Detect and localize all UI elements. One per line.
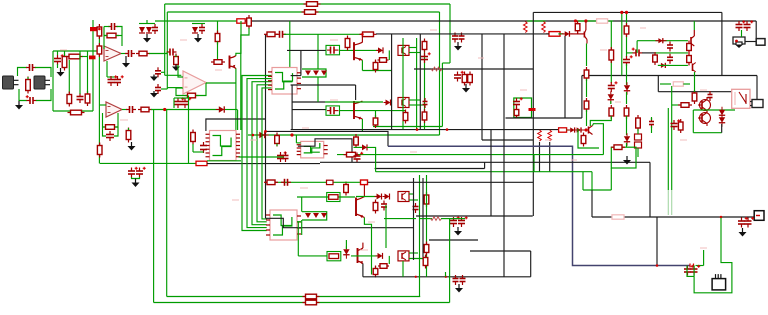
wire bus line 3: [252, 82, 272, 225]
wire: [424, 40, 426, 130]
op-amp U1A: [104, 46, 121, 61]
wire: [567, 129, 570, 131]
wire: [161, 71, 165, 73]
wire: [284, 33, 364, 35]
resistor R18: [215, 31, 220, 45]
wire: [146, 20, 148, 24]
capacitor C19b: [283, 152, 289, 162]
resistor R56: [687, 41, 692, 54]
wire: [441, 63, 443, 127]
capacitor C17: [136, 167, 146, 178]
wire: [276, 144, 278, 147]
capacitor C56: [623, 55, 633, 66]
wire black: [362, 264, 364, 277]
wire: [92, 20, 94, 111]
wire: [442, 62, 450, 64]
connector X4: [750, 100, 763, 108]
wire: [165, 74, 182, 76]
wire: [64, 51, 66, 56]
resistor R56b: [514, 107, 519, 119]
wire red collector: [362, 243, 364, 248]
optocoupler OK2: [398, 98, 409, 108]
wire: [672, 104, 680, 106]
ground: [150, 75, 158, 82]
wire: [420, 218, 432, 220]
resistor R13: [68, 110, 85, 115]
IC U5: [297, 141, 328, 158]
wire: [361, 119, 363, 131]
capacitor C33: [450, 216, 460, 227]
wire: [164, 4, 166, 75]
varistor RV1: [635, 134, 642, 140]
wire: [373, 126, 442, 128]
resistor R33: [373, 60, 378, 73]
wire: [98, 29, 100, 163]
resistor R55: [653, 52, 658, 65]
resistor R57b: [581, 133, 586, 147]
wire: [115, 113, 118, 127]
resistor R65: [673, 82, 683, 86]
optocoupler OK3 LED A: [375, 194, 382, 200]
wire: [375, 60, 377, 62]
wire base through: [340, 49, 379, 51]
wire: [297, 221, 301, 223]
wire red: [571, 33, 585, 35]
wire: [178, 65, 183, 77]
junction: [98, 28, 101, 31]
capacitor C15: [106, 131, 114, 141]
junction node A: [163, 108, 166, 111]
wire faded: [671, 190, 673, 215]
wire: [441, 218, 450, 220]
wire black: [490, 130, 492, 216]
resistor R41c: [423, 255, 428, 269]
wire: [586, 44, 588, 67]
wire: [149, 53, 167, 55]
wire: [402, 261, 404, 277]
wire rail2 bottom: [248, 134, 440, 136]
capacitor C7: [167, 49, 177, 56]
connector X1: [733, 37, 745, 48]
wire: [176, 88, 187, 96]
wire: [166, 12, 168, 89]
wire: [577, 20, 597, 22]
wire: [636, 41, 638, 53]
capacitor C50: [691, 265, 701, 276]
wire: [692, 110, 694, 133]
wire: [128, 128, 130, 130]
wire: [104, 26, 110, 28]
resistor R36: [344, 182, 349, 196]
wire: [104, 35, 107, 37]
capacitor C53: [423, 98, 428, 108]
wire: [237, 110, 239, 130]
resistor R64: [612, 215, 624, 219]
wire: [173, 98, 175, 108]
wire: [409, 52, 420, 54]
diode D25: [624, 82, 630, 94]
wire: [610, 168, 612, 190]
wire: [317, 77, 319, 102]
capacitor C14: [126, 106, 136, 113]
wire: [317, 34, 319, 69]
optocoupler OK2 LED: [384, 100, 391, 106]
capacitor C42: [736, 20, 746, 31]
capacitor C2: [26, 95, 37, 104]
wire black: [470, 250, 531, 252]
wire black rail: [320, 161, 650, 163]
wire black: [291, 75, 301, 77]
wire: [558, 33, 564, 35]
optocoupler OK3 LED B: [383, 194, 390, 200]
resistor R14: [97, 24, 102, 39]
resistor R34: [373, 115, 378, 128]
resistor R63: [611, 145, 625, 150]
capacitor C23: [381, 201, 387, 211]
wire: [19, 89, 27, 101]
wire: [301, 197, 303, 212]
resistor R5b: [237, 19, 245, 23]
ground: [122, 56, 130, 68]
IC U8 relay: [732, 89, 750, 108]
resistor R58b: [609, 47, 614, 63]
resistor R44: [542, 22, 546, 33]
optocoupler OK1: [398, 45, 409, 55]
resistor R10: [66, 54, 83, 59]
wire: [621, 12, 623, 75]
capacitor C47: [708, 91, 713, 101]
junction: [445, 276, 447, 278]
wire black: [300, 50, 302, 75]
wire black vertical: [422, 178, 424, 260]
resistor R12: [85, 91, 90, 106]
wire: [658, 64, 688, 66]
wire: [153, 110, 155, 303]
resistor R37: [373, 200, 378, 214]
wire black: [291, 84, 356, 86]
ground: [623, 156, 631, 165]
wire: [361, 60, 363, 70]
net frame: [514, 98, 532, 118]
wire: [402, 38, 404, 130]
wire: [533, 155, 535, 172]
junction: [585, 128, 588, 131]
wire: [82, 56, 88, 58]
wire bottom rail: [154, 302, 450, 304]
resistor R14b: [97, 43, 102, 57]
resistor R21: [211, 60, 225, 65]
wire: [449, 4, 451, 63]
capacitor C25: [421, 52, 431, 63]
wire: [241, 28, 249, 130]
wire: [694, 76, 696, 93]
wire: [354, 146, 363, 148]
transistor Q3: [354, 101, 362, 120]
wire: [166, 52, 168, 54]
wire base through: [351, 255, 377, 257]
optocoupler OK1 LED: [376, 47, 383, 53]
wire: [103, 27, 105, 50]
wire black vertical: [391, 34, 393, 130]
junction: [574, 19, 577, 22]
diode row D12 D13 D14: [302, 212, 327, 220]
resistor R30: [264, 32, 278, 37]
wire: [289, 21, 291, 68]
capacitor C19: [277, 151, 287, 162]
resistor R35 with frame: [327, 193, 340, 202]
junction: [416, 128, 419, 131]
wire: [637, 129, 639, 134]
wire: [426, 175, 428, 277]
resistor R32: [345, 36, 350, 51]
resistor R50: [303, 300, 320, 305]
wire black: [530, 251, 532, 277]
resistor R40: [422, 39, 427, 53]
diode D28: [690, 264, 694, 268]
IC U6: [268, 68, 301, 95]
resistor R26: [196, 161, 207, 165]
diode D5: [216, 106, 228, 112]
transistor Q8b: [693, 63, 696, 73]
wire black segment: [642, 52, 654, 54]
capacitor C11: [155, 84, 161, 94]
wire: [103, 126, 106, 128]
wire black vertical: [419, 34, 421, 130]
resistor R30b: [264, 180, 278, 185]
resistor R42b: [468, 72, 473, 86]
wire: [741, 30, 743, 37]
transistor Q1: [230, 56, 236, 69]
wire: [116, 35, 122, 37]
wire: [657, 76, 659, 92]
wire black: [429, 239, 478, 241]
wire: [57, 51, 59, 55]
ground: [57, 68, 65, 77]
resistor R28: [275, 133, 280, 147]
wire: [703, 250, 705, 266]
diode D6: [256, 132, 268, 138]
wire black rail: [376, 33, 549, 35]
capacitor C48: [671, 119, 681, 130]
transistor Q5: [358, 248, 363, 264]
capacitor C40: [632, 48, 643, 57]
junction: [264, 130, 267, 133]
wire black base feed: [287, 49, 326, 51]
wire black rail: [582, 75, 757, 77]
resistor R42: [462, 72, 467, 86]
wire: [27, 77, 29, 79]
resistor R17: [174, 54, 179, 68]
resistor R38: [424, 192, 429, 207]
wire: [337, 154, 603, 156]
wire black: [206, 119, 266, 131]
capacitor C37: [460, 275, 466, 285]
wire: [295, 135, 297, 143]
resistor R45: [546, 32, 563, 37]
wire: [385, 205, 387, 248]
wire: [687, 266, 694, 277]
resistor R43: [524, 22, 528, 33]
wire: [651, 117, 653, 120]
net frame: [578, 129, 599, 148]
wire: [106, 61, 108, 77]
wire black: [581, 76, 583, 119]
wire: [166, 110, 168, 297]
wire: [117, 27, 123, 47]
resistor R61: [636, 115, 641, 131]
resistor R46: [344, 152, 359, 157]
capacitor C31: [513, 97, 523, 108]
junction: [584, 19, 587, 22]
wire bus line 4: [257, 85, 272, 222]
resistor R39b: [378, 264, 389, 269]
resistor R39c: [373, 266, 378, 278]
wire: [375, 111, 377, 118]
wire black vertical: [413, 178, 415, 260]
wire emitter: [364, 218, 371, 275]
wire black: [658, 91, 731, 93]
capacitor C45: [738, 217, 748, 228]
resistor R23: [103, 125, 118, 130]
optocoupler OK3: [398, 192, 409, 202]
resistor R2: [302, 10, 319, 15]
optocoupler OK4: [398, 251, 409, 261]
diode D19: [562, 31, 574, 37]
ground: [194, 34, 202, 43]
diode row D7 D8 D9: [302, 69, 327, 77]
wire: [132, 177, 140, 179]
wire: [121, 53, 127, 55]
wire black rail: [592, 216, 755, 218]
wire black: [539, 142, 541, 172]
wire: [207, 160, 241, 162]
wire rail green part: [155, 20, 236, 22]
resistor R25: [97, 143, 102, 158]
wire: [409, 258, 427, 260]
junction: [252, 134, 255, 137]
wire: [591, 172, 593, 190]
resistor R5: [597, 19, 608, 23]
inductor L2: [431, 217, 442, 221]
capacitor C9: [199, 24, 205, 34]
resistor R47: [354, 134, 359, 148]
diode D22b: [362, 144, 367, 150]
wire: [694, 72, 696, 76]
wire: [301, 220, 303, 235]
wire: [693, 109, 735, 111]
wire black: [291, 85, 293, 130]
wire: [439, 12, 441, 135]
diode D23: [608, 91, 614, 103]
resistor R46b: [538, 130, 542, 141]
capacitor C8: [152, 24, 158, 34]
wire: [484, 162, 486, 168]
junction: [720, 216, 723, 219]
resistor R54b: [422, 109, 427, 123]
wire black: [482, 139, 534, 141]
wire black: [721, 124, 723, 133]
ground: [739, 228, 747, 237]
capacitor C4: [77, 93, 84, 103]
wire: [188, 96, 190, 164]
varistor RV2: [635, 142, 642, 148]
resistor R53b: [584, 98, 589, 112]
resistor R54: [624, 23, 629, 37]
wire emitter rail: [362, 70, 391, 72]
wire: [174, 97, 188, 99]
wire bus line 5: [262, 88, 272, 219]
diode D4: [192, 27, 198, 33]
diode D1b: [89, 56, 96, 60]
wire loop: [694, 218, 732, 293]
wire: [660, 83, 671, 85]
junction: [446, 128, 449, 131]
diode D24: [655, 38, 666, 43]
wire: [637, 40, 688, 42]
wire: [139, 23, 155, 25]
connector X5: [712, 274, 726, 290]
wire red collector: [361, 34, 363, 42]
capacitor C18: [200, 142, 207, 153]
wire red collector: [363, 183, 365, 197]
wire: [167, 87, 182, 89]
junction: [415, 276, 417, 278]
wire: [100, 104, 106, 106]
capacitor C21 framed: [326, 45, 340, 54]
wire bus line 2: [247, 79, 272, 228]
connector J1: [3, 76, 19, 89]
wire: [87, 51, 89, 93]
wire: [196, 83, 206, 96]
wire: [236, 21, 241, 56]
resistor R27: [191, 130, 196, 145]
wire black: [266, 131, 389, 146]
wire bottom rail: [167, 296, 421, 298]
transistor Q4: [356, 197, 364, 219]
wire: [52, 51, 54, 111]
wire base through: [340, 110, 406, 112]
resistor R22: [138, 107, 152, 112]
wire: [450, 218, 465, 220]
junction: [625, 11, 628, 14]
capacitor C52: [114, 75, 124, 86]
resistor R41b: [424, 242, 429, 256]
capacitor C55: [608, 81, 618, 92]
resistor R51: [575, 21, 580, 34]
capacitor C20: [276, 31, 286, 38]
wire: [297, 222, 299, 256]
wire: [206, 82, 236, 84]
resistor R60: [624, 105, 629, 119]
wire black: [375, 168, 485, 170]
diode D18: [343, 246, 349, 258]
wire: [297, 196, 355, 198]
transistor Q8: [691, 30, 694, 46]
wire: [626, 52, 633, 54]
capacitor C51: [108, 75, 118, 86]
wire black: [292, 101, 325, 103]
wire black: [745, 41, 756, 43]
capacitor C43: [744, 20, 754, 31]
wire: [651, 126, 653, 133]
connector J2: [34, 76, 50, 89]
resistor R66: [692, 90, 697, 104]
diode D26: [719, 107, 725, 119]
wire: [296, 142, 300, 144]
wire black: [721, 12, 723, 75]
capacitor C22 framed: [326, 106, 340, 115]
wire black vertical: [265, 34, 267, 218]
